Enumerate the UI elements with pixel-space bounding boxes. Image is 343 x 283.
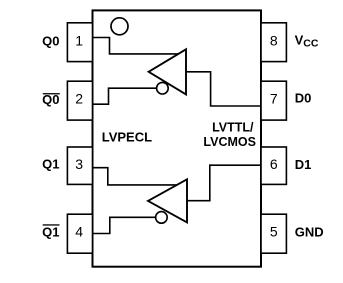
svg-text:8: 8 bbox=[270, 33, 278, 49]
svg-text:LVCMOS: LVCMOS bbox=[203, 135, 256, 149]
svg-text:D1: D1 bbox=[295, 157, 312, 172]
svg-text:2: 2 bbox=[75, 91, 83, 107]
wire pin2 to buffer A inverted output bbox=[93, 88, 159, 104]
pin 6 box bbox=[261, 147, 286, 184]
wire buffer A input to pin7 bbox=[186, 72, 261, 106]
overline for Q0-bar bbox=[43, 93, 60, 94]
pin 3 box bbox=[67, 147, 92, 184]
pin 1 box bbox=[67, 23, 92, 62]
svg-text:7: 7 bbox=[270, 91, 278, 107]
pin 1 indicator circle bbox=[111, 18, 128, 35]
pin 5 box bbox=[261, 214, 286, 253]
wire buffer B input to pin6 bbox=[187, 165, 261, 201]
wire pin4 to buffer B inverted output bbox=[93, 217, 157, 233]
wire pin3 to buffer B true output bbox=[93, 168, 179, 185]
svg-text:Q1: Q1 bbox=[42, 157, 59, 172]
svg-text:5: 5 bbox=[270, 224, 278, 240]
svg-text:LVPECL: LVPECL bbox=[102, 130, 152, 145]
inversion bubble U1B bbox=[156, 212, 168, 224]
svg-text:LVTTL/: LVTTL/ bbox=[212, 121, 254, 135]
wire pin1 to buffer A true output bbox=[93, 38, 180, 54]
svg-text:4: 4 bbox=[75, 224, 83, 240]
svg-text:6: 6 bbox=[270, 156, 278, 172]
overline for Q1-bar bbox=[43, 224, 60, 225]
svg-text:Q0: Q0 bbox=[42, 34, 59, 49]
pin 7 box bbox=[261, 81, 286, 120]
svg-text:D0: D0 bbox=[295, 91, 312, 106]
svg-text:1: 1 bbox=[75, 33, 83, 49]
pin 2 box bbox=[67, 81, 92, 120]
svg-text:Q1: Q1 bbox=[42, 225, 59, 240]
pin 4 box bbox=[67, 214, 92, 253]
buffer U1A triangle bbox=[149, 49, 186, 94]
IC package outline U1 bbox=[93, 10, 262, 266]
svg-text:3: 3 bbox=[75, 156, 83, 172]
inversion bubble U1A bbox=[157, 82, 169, 94]
pin 8 box bbox=[261, 23, 286, 62]
svg-text:GND: GND bbox=[295, 224, 324, 239]
buffer U1B triangle bbox=[148, 179, 187, 222]
